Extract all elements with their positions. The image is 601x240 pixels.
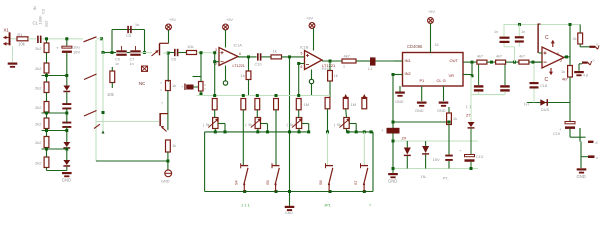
wire ladder stub (46, 112, 48, 118)
wire C8 to R10 (178, 52, 186, 54)
svg-text:C: C (545, 35, 549, 41)
resistor ladder R2 (35, 43, 49, 53)
svg-text:Z7: Z7 (466, 114, 470, 118)
wire ladder stub (46, 73, 48, 82)
symbol NC (139, 66, 148, 86)
svg-text:2k2: 2k2 (35, 121, 42, 126)
svg-text:(1): (1) (524, 101, 530, 106)
wire res to pot (298, 110, 300, 118)
label c gnd (466, 104, 472, 109)
wire mute down (167, 53, 169, 82)
node rail (213, 94, 216, 97)
capacitor C8 (171, 49, 178, 62)
wire col 364 down (363, 132, 365, 166)
opamp3 supply arrow down (549, 68, 553, 75)
ground right (577, 168, 587, 179)
resistor R15 (271, 48, 282, 59)
ground col393 (388, 173, 398, 184)
IC2 pin OUT stub (463, 61, 474, 64)
wire capB bot (518, 43, 520, 47)
power supply opamp2 (306, 17, 315, 51)
resistor R20 (255, 99, 260, 110)
wire col470 top (471, 62, 473, 76)
resistor ladder R7 (35, 137, 49, 148)
op-amp IC1B (300, 46, 336, 70)
opamp2 minus input wire (297, 62, 304, 65)
wire cap loop top (112, 29, 145, 31)
ground box (285, 192, 295, 216)
wire R31 to flag (580, 44, 589, 47)
wire R10 to opamp (197, 51, 217, 54)
trimpot P4 (334, 118, 356, 132)
resistor ladder R5 (35, 102, 49, 113)
wire col470 down (470, 76, 472, 122)
resistor R23 (325, 98, 330, 109)
svg-text:C8: C8 (171, 58, 176, 62)
svg-text:o: o (593, 59, 595, 63)
capacitor C2 electrolytic (56, 45, 80, 55)
resistor R30 (561, 66, 572, 82)
svg-text:1n: 1n (115, 62, 119, 66)
node y131.9 (266, 130, 269, 133)
svg-text:1M: 1M (351, 102, 357, 107)
svg-text:10k: 10k (18, 41, 26, 46)
svg-text:1 1 1: 1 1 1 (241, 203, 251, 208)
switch contact S1b (84, 74, 97, 80)
svg-text:1k: 1k (273, 48, 277, 53)
svg-text:1n: 1n (494, 30, 498, 34)
svg-text:S4: S4 (235, 180, 239, 185)
svg-text:C19: C19 (553, 132, 560, 136)
switch S3 (96, 113, 168, 132)
capacitor C11 electrolytic (381, 128, 400, 134)
netflag OUT2 (579, 59, 595, 66)
capacitor C9 electrolytic (181, 84, 199, 91)
capacitor C14 (474, 64, 484, 95)
label C2 vertical (33, 6, 46, 14)
netflag bar1 (588, 141, 599, 145)
wire col 327 down (326, 109, 329, 166)
wire cross y161 (96, 160, 169, 163)
wire out seg3 (529, 61, 542, 64)
svg-text:S6: S6 (319, 180, 323, 185)
lamp symbol LS1 (161, 170, 172, 184)
wire col 276 down (275, 110, 277, 166)
wire rail y24.5 (504, 23, 581, 26)
node y131.9 (307, 130, 310, 133)
capacitor C3 (62, 103, 71, 109)
wire feedback opamp1 (214, 53, 216, 96)
switch contact S1c (84, 111, 97, 117)
switch S2 frame (159, 43, 169, 55)
wire X1 to R1 (11, 38, 18, 40)
svg-text:R1: R1 (18, 33, 23, 37)
label JP1 (241, 203, 251, 208)
svg-text:GND: GND (415, 109, 424, 113)
wire flag2 gnd (574, 64, 588, 78)
svg-text:IN2: IN2 (405, 71, 412, 76)
node y131.9 (214, 130, 217, 133)
svg-text:+9V: +9V (306, 17, 313, 21)
wire rotary vertical (95, 40, 97, 161)
ground under X1 (8, 46, 18, 68)
svg-text:1M: 1M (304, 102, 310, 107)
svg-text:6: 6 (301, 65, 303, 69)
svg-text:.: . (411, 149, 412, 153)
wire y122 (392, 121, 451, 124)
svg-text:JP1: JP1 (324, 203, 332, 208)
resistor ladder R8 (35, 157, 49, 168)
svg-text:100n: 100n (38, 16, 43, 25)
diode D2 (63, 142, 70, 149)
svg-text:4.8: 4.8 (583, 74, 588, 78)
switch contact S1d (94, 124, 100, 128)
capacitor C5 (126, 23, 139, 38)
IC2 power pin (428, 10, 439, 53)
wire y131.9 left (205, 131, 310, 133)
wire feedback opamp2 (298, 64, 300, 96)
svg-text:o: o (596, 43, 598, 47)
wire opamp2 out down (329, 61, 331, 71)
wire bus seg5 (66, 149, 68, 160)
switch S6 (319, 163, 333, 191)
op-amp IC2A (542, 35, 564, 83)
svg-text:GND: GND (577, 174, 586, 179)
wire ladder tap (42, 112, 69, 115)
wire R16 down (329, 81, 331, 98)
svg-text:10k: 10k (107, 92, 115, 97)
svg-text:2k2: 2k2 (35, 105, 42, 110)
resistor R24 (343, 98, 348, 109)
svg-text:6: 6 (557, 52, 559, 56)
resistor R19 (241, 99, 246, 110)
svg-text:1k: 1k (453, 117, 457, 121)
switch S7 (354, 163, 368, 191)
diode D5 (466, 114, 475, 129)
svg-text:X1: X1 (4, 27, 10, 32)
trimpot P1 (203, 118, 225, 132)
wire capA drop (503, 25, 505, 37)
capacitor C16 (494, 30, 510, 43)
svg-text:GND: GND (62, 178, 71, 183)
resistor R22 (296, 99, 301, 110)
svg-text:C10: C10 (255, 63, 262, 67)
svg-text:GND: GND (161, 180, 170, 184)
svg-text:2u2: 2u2 (45, 21, 49, 27)
IC2 gnd left (395, 86, 405, 104)
wire out seg1 (487, 61, 496, 64)
trimpot P2 (245, 118, 267, 132)
resistor ladder R4 (35, 82, 49, 93)
svg-text:+: + (56, 46, 59, 51)
svg-text:C5: C5 (126, 33, 132, 38)
svg-text:6: 6 (239, 52, 241, 56)
wire feedback opamp3 (569, 25, 571, 66)
junction node elco C2 (65, 37, 68, 46)
wire rail y95.5 (197, 95, 331, 97)
IC2 bottom pin1 (415, 86, 427, 113)
svg-text:C2: C2 (41, 8, 46, 14)
netflag bar2 (581, 155, 598, 160)
svg-text:.: . (374, 65, 375, 69)
svg-text:1k: 1k (334, 73, 338, 78)
svg-text:=: = (204, 83, 206, 87)
node rail (275, 94, 278, 97)
node box bottom (243, 190, 246, 193)
wire opamp1 out down (248, 57, 250, 71)
switch blade S1a (84, 37, 104, 42)
svg-text:+9V: +9V (226, 18, 233, 22)
resistor R1 (17, 33, 28, 46)
svg-text:2k2: 2k2 (35, 160, 42, 165)
wire cap mid (127, 52, 131, 54)
node rail (297, 94, 300, 97)
resistor R31 (573, 25, 583, 45)
resistor R28 (496, 55, 506, 65)
wire bus seg2 (66, 92, 68, 103)
svg-text:4k7: 4k7 (477, 55, 483, 59)
label 15V (433, 157, 440, 162)
svg-text:S5: S5 (266, 180, 270, 185)
node box bottom (329, 190, 332, 193)
resistor R18 (212, 99, 217, 110)
node y131.9 (298, 130, 301, 133)
svg-text:5k: 5k (206, 123, 210, 127)
IC2 pin VR stub (463, 74, 474, 77)
capacitor C15 (500, 64, 510, 95)
diode D3 (63, 160, 70, 167)
wire bus seg3 (66, 108, 68, 122)
svg-text:1n: 1n (521, 30, 525, 34)
IC2 pin IN1 stub (394, 60, 403, 62)
svg-text:4k7: 4k7 (496, 55, 502, 59)
svg-text:2k2: 2k2 (35, 66, 42, 71)
svg-text:DUS: DUS (541, 108, 549, 112)
wire to cap C8 (168, 52, 174, 54)
svg-text:R16: R16 (322, 67, 329, 71)
diode D4 (421, 141, 430, 179)
wire pot bottom (346, 129, 348, 132)
resistor R9 (107, 67, 115, 97)
svg-text:IC1A: IC1A (234, 43, 243, 47)
wire col393 (392, 75, 394, 173)
wire rail y168.5 (392, 167, 479, 170)
switch S5 (266, 163, 280, 191)
svg-text:IN: IN (33, 6, 37, 10)
capacitor C1 (33, 16, 43, 43)
arrow top R24 (343, 94, 348, 99)
wire res to pot (214, 110, 216, 118)
svg-text:4k7: 4k7 (519, 55, 525, 59)
svg-text:+9V: +9V (428, 10, 435, 14)
svg-text:1: 1 (343, 65, 345, 69)
wire ladder stub (46, 53, 48, 64)
wire down right (443, 142, 581, 181)
wire plus input maroon (537, 24, 542, 53)
svg-text:C18: C18 (540, 84, 547, 88)
capacitor C12 (445, 141, 453, 169)
capacitor C4 (62, 122, 71, 128)
svg-text:=: = (204, 88, 206, 92)
wire R12 down (167, 152, 169, 170)
wire ladder tap (42, 74, 69, 77)
connector X1 (3, 27, 11, 45)
resistor R12 (166, 140, 177, 152)
svg-text:NC: NC (139, 81, 145, 86)
svg-text:5k: 5k (248, 123, 252, 127)
svg-text:C6: C6 (115, 58, 120, 62)
wire capA bot (504, 43, 515, 62)
svg-text:+9V: +9V (169, 18, 176, 22)
svg-text:2k2: 2k2 (35, 140, 42, 145)
wire box left (204, 132, 206, 192)
wire cap loop vertical left (111, 30, 113, 53)
wire ladder tap (42, 148, 69, 151)
svg-text:1k: 1k (561, 70, 565, 74)
opamp1 output wire (238, 55, 257, 58)
ground ladder (62, 172, 72, 183)
wire main input rail (42, 38, 83, 40)
power +9V supply1 (166, 18, 177, 43)
svg-text:P1: P1 (420, 78, 426, 83)
wire ladder stub (46, 148, 48, 158)
resistor R25 (362, 98, 367, 109)
wire res to pot (256, 110, 258, 118)
svg-text:2: 2 (560, 59, 562, 63)
svg-text:1n: 1n (130, 62, 134, 66)
svg-text:2k: 2k (573, 37, 577, 41)
wire pot bottom (257, 129, 259, 132)
wire R1 to C1 (28, 38, 37, 40)
wire ladder bottom join (47, 170, 67, 172)
svg-text:C13: C13 (476, 155, 483, 159)
net stub T (579, 128, 581, 142)
node y131.9 (256, 130, 259, 133)
node rail (242, 94, 245, 97)
resistor R29 (519, 55, 529, 65)
node y131.9 (224, 130, 227, 133)
resistor R26 (447, 107, 458, 141)
svg-text:1k: 1k (241, 73, 245, 78)
resistor ladder R3 (35, 63, 49, 73)
junction node ladder top (45, 37, 48, 43)
svg-text:GND: GND (388, 179, 397, 184)
svg-text:10k: 10k (187, 44, 193, 49)
svg-text:3: 3 (215, 48, 217, 52)
arrow top R25 (362, 94, 367, 99)
IC2 pin IN2 stub (392, 73, 403, 76)
label arr (369, 202, 372, 207)
capacitor C10 (255, 53, 262, 66)
wire to gnd right (580, 157, 582, 168)
node box bottom (363, 190, 366, 193)
svg-text:2k2: 2k2 (35, 46, 42, 51)
wire input node tail (102, 53, 105, 134)
wire C19 down (570, 129, 586, 137)
capacitor C18 (530, 64, 547, 103)
wire y131.9 right (346, 130, 373, 133)
IC2 body (403, 44, 464, 86)
wire res to pot 4 (345, 109, 348, 118)
svg-text:1N..: 1N.. (421, 175, 428, 179)
capacitor C13 electrolytic (459, 148, 483, 162)
wire mute node (163, 52, 170, 55)
svg-text:CD4066: CD4066 (407, 44, 423, 49)
wire R14 to rail (248, 80, 250, 96)
wire cap loop vertical right (143, 30, 146, 55)
wire L1 to IC (376, 60, 403, 62)
wire C10 to R15 (261, 56, 271, 58)
wire y94.6 (471, 94, 505, 96)
svg-text:1k: 1k (172, 143, 176, 148)
label S1 rotated (45, 21, 49, 27)
wire R11 down (161, 91, 168, 131)
wire col470 bot (470, 162, 473, 170)
svg-text:2k2: 2k2 (35, 85, 42, 90)
svg-text:OUT: OUT (450, 58, 459, 63)
svg-text:GND: GND (395, 100, 404, 104)
svg-text:16V: 16V (73, 50, 80, 55)
wire opamp2 plus node down (289, 57, 291, 192)
wire R17 to L1 (356, 60, 370, 62)
svg-text:IN1: IN1 (405, 58, 412, 63)
diode D1 (63, 86, 70, 93)
wire R30 down (569, 77, 571, 103)
opamp2 output wire (322, 60, 342, 63)
op-amp IC1A (215, 43, 245, 68)
svg-text:GND: GND (437, 109, 446, 113)
svg-text:GND: GND (285, 211, 293, 215)
svg-text:15V: 15V (433, 157, 440, 162)
svg-text:1k: 1k (172, 83, 176, 88)
resistor R17 (342, 54, 356, 69)
switch S4 (235, 163, 249, 191)
svg-text:C: C (545, 77, 549, 83)
node y131.9 (288, 130, 291, 133)
wire col 243 down (242, 110, 244, 166)
wire out seg0 (472, 61, 477, 63)
svg-text:5: 5 (301, 52, 303, 56)
wire y102.5 (527, 102, 570, 104)
svg-text:ZX: ZX (402, 137, 407, 141)
wire box bottom (205, 191, 373, 193)
svg-text:=: = (160, 82, 162, 86)
wire ladder stub (46, 168, 48, 171)
node box bottom (288, 190, 291, 193)
svg-text:IC1B: IC1B (300, 46, 309, 50)
svg-text:C7: C7 (130, 58, 135, 62)
opamp2 vminus pin (309, 70, 313, 96)
wire node down (102, 39, 114, 54)
inductor L1 ferrite (368, 57, 376, 71)
resistor R10 (187, 44, 197, 55)
capacitor C19 electrolytic (553, 103, 575, 137)
svg-text:L1: L1 (368, 67, 372, 71)
resistor R27 (477, 55, 487, 65)
wire bus seg4 (66, 127, 68, 142)
wire bus seg1 (66, 53, 68, 86)
wire ladder stub (46, 129, 48, 137)
svg-text:16: 16 (435, 43, 439, 47)
opamp1 minus input wire (213, 60, 219, 63)
opamp3 out wire (564, 55, 570, 58)
trimpot P3 (287, 118, 309, 132)
svg-text:S7: S7 (354, 180, 358, 185)
wire minus input (533, 61, 542, 63)
switch S2 arrow (152, 50, 159, 56)
svg-text:4k7: 4k7 (562, 78, 568, 82)
label JP2 (324, 203, 332, 208)
